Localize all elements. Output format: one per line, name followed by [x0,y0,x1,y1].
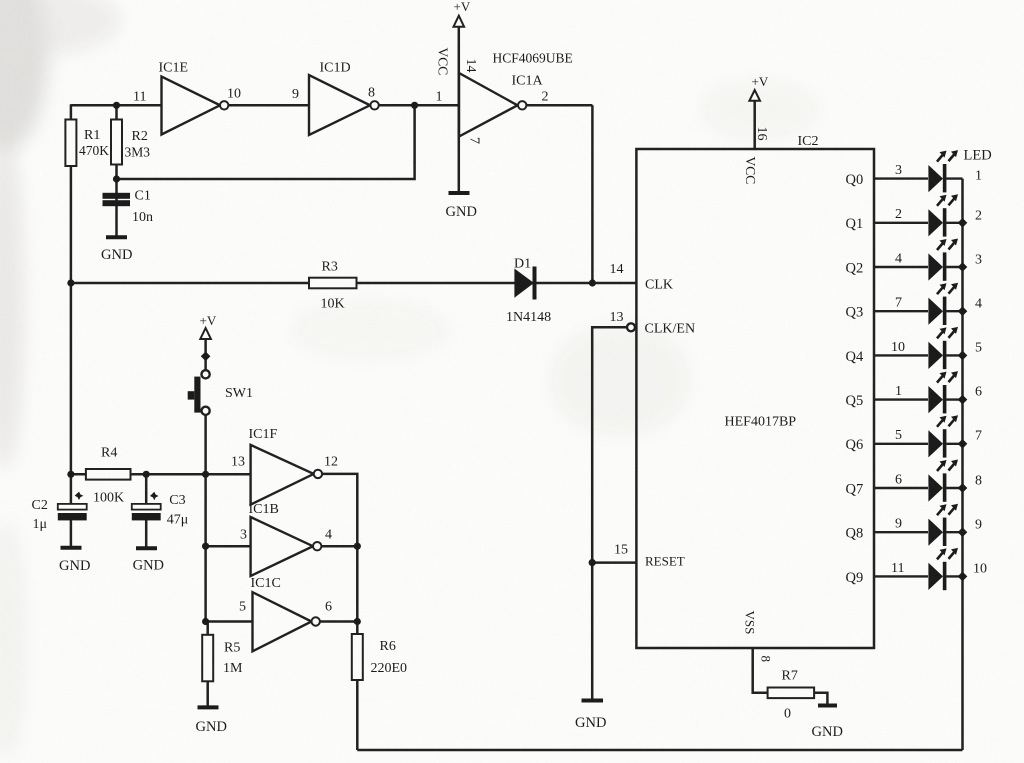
ground for R7 [818,704,837,708]
wire: IC1D out to IC1A in [379,104,459,107]
ground for IC1A [449,191,470,195]
output Q1 / LED 2 [846,194,983,236]
output Q8 / LED 9 [846,504,983,546]
resistor R3 [309,278,357,289]
wire: left vertical rail x=71 [70,104,73,474]
wire: switch bottom to R4 bus [204,415,207,474]
wire: bottom bus [357,749,962,752]
ground for C3 [136,546,157,550]
wire: vertical from IC1A output down to CLK row [591,105,594,283]
capacitor C2 (electrolytic) [32,492,87,532]
wire: IC1F output to right rail [322,474,357,622]
capacitor C3 (electrolytic) [132,492,188,528]
wire: R2 branch vertical [115,105,118,179]
wire: C2 to ground [70,519,73,548]
power +V for IC1A [454,0,471,193]
ground for C2 [61,546,82,550]
resistor R7 [768,688,815,699]
node dot on +V lead [201,351,211,361]
wire: IC1B output [321,545,357,548]
junction C3 / bus [143,471,150,478]
power +V for IC2 pin 16 [743,74,769,184]
wire: +V to IC2 top [753,101,756,149]
inverter IC1D [292,61,379,136]
output Q3 / LED 4 [846,283,983,325]
output Q0 / LED 1 [846,150,983,192]
wire: R3/CLK row from left rail to IC2 [71,282,637,285]
junction IC1B output rail [354,543,361,550]
output Q9 / LED 10 [846,548,988,590]
junction SW1 / bus [202,471,209,478]
wire: C3 stem [145,474,148,504]
wire: CLK/EN to left rail and down to GND [592,327,627,700]
wire: R6 leg down to bottom bus [356,622,359,751]
inverter IC1A [436,48,573,145]
wire: IC2 pin 8 down and to R7 [753,648,768,693]
wire: C3 to ground [145,519,148,548]
diode D1 [506,257,551,326]
junction R2/C1/feedback [113,175,120,182]
wire: LED cathode rail [961,179,964,750]
wire: R7 to ground [814,693,827,706]
pin 15 RESET [589,543,685,569]
junction D1 output/IC1A vertical/CLK [589,279,596,286]
wire: VCC rail through IC1A [458,27,461,193]
inverter IC1B [240,502,332,576]
junction RESET/rail [589,559,596,566]
wire: IC1B input row [206,545,251,548]
junction left rail / R4 / C2 [67,471,74,478]
wire: C1 stem [115,179,118,237]
junction node pin11/R2 [113,102,120,109]
paper grain overlay [0,0,1,1]
inverter IC1E [133,61,241,135]
wire: IC1A out to right corner [527,104,593,107]
resistor R6 [352,634,363,680]
wire: R5 stem [206,622,209,708]
junction IC1D output/feedback [411,102,418,109]
junction left rail/R3 [67,279,74,286]
IC2 HEF4017BP body [636,149,874,648]
resistor R5 [202,635,213,682]
capacitor C1 [103,193,131,206]
ground for R5 [198,705,219,709]
wire: top node pin11 horizontal [71,104,162,107]
wire: IC1C input row [206,620,253,623]
power +V for SW1 [200,313,217,370]
output Q2 / LED 3 [846,239,983,281]
wire: RESET to rail [592,561,636,564]
inverter IC1F [231,427,338,505]
wire: +V to switch top contact [204,339,207,370]
resistor R4 [86,469,131,480]
wire: IC1E out to IC1D in [228,104,309,107]
wire: feedback from IC1D output down [117,105,415,179]
ground for CLK/EN rail [582,699,604,703]
wire: SW1 rail down to IC1C input [204,474,207,621]
wire: R4 bus row [71,473,251,476]
output Q7 / LED 8 [846,460,983,502]
pushbutton SW1 [188,370,253,415]
ground for C1 [106,235,127,239]
pin 13 CLK/EN with bubble [592,310,695,701]
inverter IC1C [239,576,332,651]
output Q6 / LED 7 [846,415,983,457]
wire: C2 stem [70,474,73,504]
resistor R1 [65,120,76,167]
output Q4 / LED 5 [846,327,983,369]
resistor R2 [111,120,122,165]
output Q5 / LED 6 [846,371,983,413]
pin 8 VSS at bottom of IC2 [743,611,774,693]
junction IC1C input / R5 [202,618,209,625]
junction IC1C output / R6 [354,618,361,625]
junction IC1B input [202,543,209,550]
wire: IC1C output [320,620,358,623]
